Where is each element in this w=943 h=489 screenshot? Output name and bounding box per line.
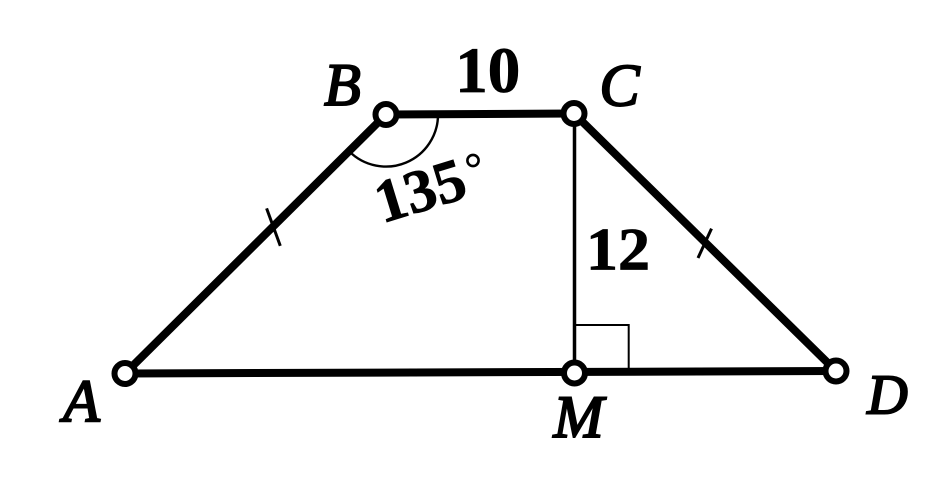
svg-text:M: M (553, 384, 607, 450)
svg-text:12: 12 (586, 217, 650, 283)
svg-text:10: 10 (455, 35, 520, 107)
svg-text:C: C (599, 52, 640, 118)
svg-text:B: B (324, 52, 361, 118)
svg-text:D: D (866, 365, 907, 427)
svg-text:A: A (59, 369, 100, 435)
